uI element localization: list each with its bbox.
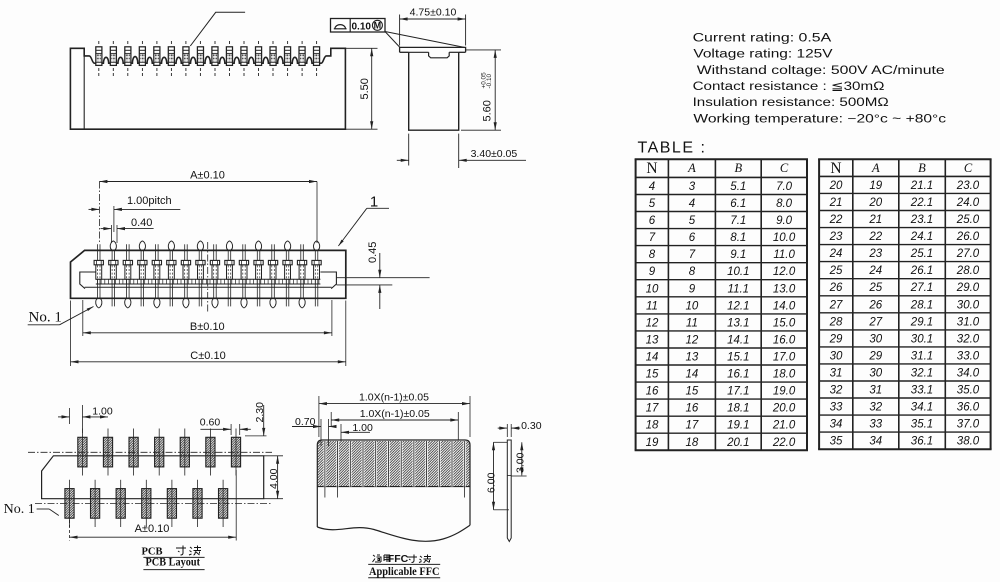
pcb pad bottom 6 (193, 480, 202, 527)
svg-text:24.1: 24.1 (910, 231, 933, 243)
svg-text:17: 17 (686, 420, 699, 432)
pcb pad bottom 1 (65, 480, 74, 527)
svg-text:31.1: 31.1 (911, 350, 933, 362)
front view pin 6 (168, 41, 174, 77)
svg-text:16.1: 16.1 (727, 369, 749, 381)
svg-text:7.0: 7.0 (776, 181, 793, 193)
svg-text:20: 20 (868, 197, 882, 209)
datum leader lines (385, 32, 464, 48)
label No.1 pcb (4, 502, 59, 517)
svg-text:N: N (646, 160, 657, 177)
svg-text:33: 33 (830, 402, 843, 414)
svg-text:22: 22 (829, 214, 843, 226)
svg-text:15: 15 (686, 386, 699, 398)
svg-text:34: 34 (830, 419, 843, 431)
svg-text:14.0: 14.0 (773, 300, 796, 312)
svg-text:16: 16 (686, 403, 699, 415)
svg-text:35: 35 (830, 436, 843, 448)
svg-text:26.0: 26.0 (956, 231, 980, 243)
svg-text:34.1: 34.1 (911, 402, 933, 414)
svg-text:14: 14 (686, 369, 699, 381)
pcb dimension A±0.10 (70, 470, 237, 541)
svg-text:11: 11 (646, 300, 658, 312)
svg-text:17: 17 (646, 403, 659, 415)
svg-text:0.40: 0.40 (131, 217, 152, 229)
svg-text:1.00pitch: 1.00pitch (127, 195, 172, 207)
svg-text:29.0: 29.0 (956, 282, 980, 294)
svg-text:FFC: FFC (388, 553, 409, 565)
svg-text:-0.10: -0.10 (486, 73, 493, 88)
top view contact 15 (297, 244, 306, 308)
svg-text:38.0: 38.0 (957, 436, 980, 448)
svg-text:28.1: 28.1 (910, 299, 933, 311)
svg-text:11.0: 11.0 (773, 249, 795, 261)
svg-text:1.00: 1.00 (92, 406, 113, 418)
svg-text:B±0.10: B±0.10 (190, 321, 225, 333)
svg-text:18: 18 (686, 437, 699, 449)
pcb pad top 6 (206, 429, 215, 476)
svg-text:13.1: 13.1 (727, 317, 749, 329)
svg-text:16.0: 16.0 (773, 334, 796, 346)
svg-text:5.50: 5.50 (359, 78, 371, 99)
svg-text:7: 7 (689, 249, 696, 261)
svg-text:19.0: 19.0 (773, 386, 796, 398)
svg-text:21: 21 (868, 214, 882, 226)
svg-text:21.0: 21.0 (772, 420, 796, 432)
front view pin 1 (96, 41, 102, 77)
svg-text:30: 30 (869, 368, 882, 380)
svg-text:C: C (964, 161, 973, 175)
pcb pad top 2 (103, 429, 112, 476)
top view contact 13 (268, 244, 277, 308)
svg-text:12: 12 (686, 334, 699, 346)
svg-text:13: 13 (686, 352, 699, 364)
svg-text:16: 16 (646, 386, 659, 398)
svg-text:11.1: 11.1 (728, 283, 750, 295)
svg-text:19.1: 19.1 (727, 420, 749, 432)
front view pin 10 (226, 41, 232, 77)
pcb dimension 2.30 (245, 402, 267, 436)
pcb pad top 7 (231, 429, 240, 476)
svg-text:23: 23 (829, 231, 843, 243)
svg-text:19: 19 (646, 437, 659, 449)
ffc dimension 0.30 (498, 420, 542, 437)
svg-text:32: 32 (830, 385, 843, 397)
svg-text:35.0: 35.0 (957, 385, 980, 397)
pcb outline (42, 456, 264, 499)
svg-text:28.0: 28.0 (956, 265, 980, 277)
top view contact 6 (167, 241, 176, 306)
svg-text:6: 6 (689, 232, 696, 244)
ffc conductor ticks (325, 487, 465, 498)
svg-text:21: 21 (829, 197, 843, 209)
side view body (409, 52, 459, 130)
front view body outline (70, 48, 345, 129)
svg-text:1.0X(n-1)±0.05: 1.0X(n-1)±0.05 (359, 392, 429, 404)
svg-text:26.1: 26.1 (910, 265, 933, 277)
svg-text:4.75±0.10: 4.75±0.10 (410, 7, 457, 19)
pcb pad top 5 (180, 429, 189, 476)
svg-text:Applicable FFC: Applicable FFC (369, 566, 440, 578)
svg-text:13.0: 13.0 (773, 283, 796, 295)
top view contact 2 (109, 241, 118, 306)
dimension A±0.10 top (99, 170, 317, 244)
svg-text:29: 29 (868, 350, 882, 362)
svg-text:27.1: 27.1 (910, 282, 933, 294)
pcb pad bottom 4 (142, 480, 151, 527)
ffc dimension 0.70 (292, 416, 337, 446)
svg-text:3: 3 (689, 181, 696, 193)
svg-text:21.1: 21.1 (910, 180, 933, 192)
svg-text:TABLE :: TABLE : (638, 140, 707, 157)
svg-text:14.1: 14.1 (727, 334, 749, 346)
svg-text:36.1: 36.1 (911, 436, 933, 448)
dimension 3.40±0.05 (397, 134, 526, 168)
svg-text:Voltage rating: 125V: Voltage rating: 125V (693, 49, 833, 61)
ffc dimension 3.00 (511, 442, 526, 476)
svg-text:17.1: 17.1 (727, 386, 749, 398)
svg-text:10.1: 10.1 (727, 266, 749, 278)
svg-text:30.1: 30.1 (911, 333, 933, 345)
top view slot right pocket (320, 272, 336, 289)
front view pin 13 (270, 41, 276, 77)
dimension 0.40 (101, 217, 154, 243)
svg-text:25: 25 (829, 265, 843, 277)
svg-text:4.00: 4.00 (268, 468, 280, 489)
top view contact 3 (123, 244, 132, 308)
top view body outline (71, 250, 346, 298)
svg-text:1.0X(n-1)±0.05: 1.0X(n-1)±0.05 (360, 408, 430, 420)
svg-text:5: 5 (689, 215, 696, 227)
top view slot left pocket (80, 272, 96, 289)
svg-text:A: A (871, 161, 880, 175)
svg-text:A: A (687, 161, 696, 175)
svg-text:30.0: 30.0 (957, 299, 980, 311)
ffc dimension overall 1.0X(n-1) (319, 392, 470, 437)
front view pin 7 (183, 41, 189, 77)
svg-text:20: 20 (829, 180, 843, 192)
svg-text:26: 26 (829, 282, 843, 294)
ffc dimension 6.00 (486, 442, 509, 510)
svg-text:M: M (374, 21, 382, 31)
svg-text:Current rating: 0.5A: Current rating: 0.5A (693, 33, 832, 45)
svg-text:7: 7 (649, 232, 656, 244)
svg-text:22.0: 22.0 (772, 437, 796, 449)
svg-text:9.0: 9.0 (776, 215, 793, 227)
svg-text:31: 31 (869, 385, 882, 397)
ffc dimension 1.00 (341, 422, 373, 441)
svg-text:27.0: 27.0 (956, 248, 980, 260)
svg-text:18.0: 18.0 (773, 369, 796, 381)
svg-text:C±0.10: C±0.10 (190, 350, 225, 362)
dimension B±0.10 (83, 300, 332, 336)
pcb pad bottom 2 (91, 480, 100, 527)
svg-text:32.0: 32.0 (957, 333, 980, 345)
label 1 top view (338, 194, 389, 247)
dimension C±0.10 (71, 301, 346, 367)
svg-text:24: 24 (868, 265, 882, 277)
dimension 4.75±0.10 (400, 7, 466, 46)
svg-text:13: 13 (646, 334, 659, 346)
front view pin 8 (197, 41, 203, 77)
top view contact 9 (210, 244, 219, 308)
svg-text:5: 5 (649, 198, 656, 210)
svg-text:Insulation resistance: 500MΩ: Insulation resistance: 500MΩ (693, 97, 890, 109)
pcb pad top 3 (129, 429, 138, 476)
caption Applicable FFC (368, 553, 440, 578)
svg-text:23.0: 23.0 (956, 180, 980, 192)
pcb dimension 4.00 (264, 456, 283, 499)
svg-text:12: 12 (646, 317, 659, 329)
pcb dimension 1.00 (58, 405, 113, 433)
svg-text:No. 1: No. 1 (29, 310, 62, 326)
svg-text:26: 26 (868, 299, 882, 311)
pcb dimension 0.60 (200, 416, 251, 435)
svg-text:8: 8 (689, 266, 696, 278)
front view pin 9 (212, 41, 218, 77)
svg-text:31: 31 (830, 368, 843, 380)
svg-text:25.1: 25.1 (910, 248, 933, 260)
svg-text:3.00: 3.00 (515, 452, 527, 473)
svg-text:20.0: 20.0 (772, 403, 796, 415)
svg-text:27: 27 (868, 316, 882, 328)
pcb pad top 4 (155, 429, 164, 476)
ffc side strip (507, 440, 511, 542)
svg-text:23.1: 23.1 (910, 214, 933, 226)
svg-text:7.1: 7.1 (730, 215, 746, 227)
svg-text:N: N (830, 160, 841, 177)
svg-text:27: 27 (829, 299, 843, 311)
top view contact 7 (181, 244, 190, 308)
svg-text:20.1: 20.1 (726, 437, 749, 449)
side view flange (400, 47, 466, 52)
front view pin 14 (285, 41, 291, 77)
svg-text:5.1: 5.1 (730, 181, 746, 193)
caption PCB Layout (142, 546, 205, 570)
top view contact 12 (254, 241, 263, 306)
svg-text:6.1: 6.1 (730, 198, 746, 210)
front view pin 11 (241, 41, 247, 77)
svg-text:34: 34 (869, 436, 882, 448)
svg-text:18.1: 18.1 (727, 403, 749, 415)
top view contact 4 (138, 241, 147, 306)
svg-text:19: 19 (869, 180, 882, 192)
pcb pad bottom 5 (167, 480, 176, 527)
svg-text:4: 4 (649, 181, 655, 193)
svg-text:Contact resistance : ≦30mΩ: Contact resistance : ≦30mΩ (693, 81, 885, 93)
top view contact 1 (94, 244, 103, 308)
svg-text:A±0.10: A±0.10 (190, 170, 225, 182)
svg-text:32.1: 32.1 (911, 368, 933, 380)
svg-text:33: 33 (869, 419, 882, 431)
svg-text:29.1: 29.1 (910, 316, 933, 328)
svg-text:8: 8 (649, 249, 656, 261)
svg-text:22: 22 (868, 231, 882, 243)
top view contact 11 (239, 244, 248, 308)
TABLE heading (638, 140, 707, 157)
svg-text:8.0: 8.0 (776, 198, 793, 210)
svg-text:9.1: 9.1 (730, 249, 746, 261)
top view contact 10 (225, 241, 234, 306)
specification text block (693, 33, 947, 126)
svg-text:8.1: 8.1 (730, 232, 746, 244)
front view pin 16 (314, 41, 320, 77)
svg-text:0.60: 0.60 (200, 416, 221, 428)
pcb pad bottom 3 (116, 480, 125, 527)
svg-text:Withstand coltage: 500V AC/mi: Withstand coltage: 500V AC/minute (697, 65, 945, 77)
ffc cable outline (317, 440, 470, 541)
svg-text:6: 6 (649, 215, 656, 227)
top view contact 8 (196, 241, 205, 306)
svg-text:C: C (780, 161, 789, 175)
svg-text:18: 18 (646, 420, 659, 432)
dimension table left (N 4-19) (635, 159, 808, 450)
top view slot rail (85, 279, 332, 287)
dimension 5.60 +0.05/-0.10 (461, 50, 501, 130)
front view pin 5 (154, 41, 160, 77)
dimension 1.00pitch (89, 195, 181, 232)
svg-text:B: B (734, 161, 742, 175)
dimension 5.50 (345, 48, 377, 129)
svg-text:5.60: 5.60 (482, 100, 494, 121)
front view pin 3 (125, 41, 131, 77)
svg-text:0.45: 0.45 (367, 242, 379, 263)
svg-text:10: 10 (686, 300, 699, 312)
svg-text:22.1: 22.1 (910, 197, 933, 209)
svg-text:15: 15 (646, 369, 659, 381)
dimension 0.45 (337, 242, 430, 309)
svg-text:30: 30 (830, 350, 843, 362)
svg-text:29: 29 (829, 333, 843, 345)
label No.1 top view (28, 307, 94, 326)
svg-text:25: 25 (868, 282, 882, 294)
svg-text:15.0: 15.0 (773, 317, 796, 329)
svg-text:PCB Layout: PCB Layout (146, 557, 201, 569)
svg-text:17.0: 17.0 (773, 352, 796, 364)
svg-text:A±0.10: A±0.10 (135, 523, 170, 535)
svg-text:0.30: 0.30 (521, 420, 542, 432)
pcb pad bottom 7 (219, 480, 228, 527)
front view pin 12 (256, 41, 262, 77)
svg-text:31.0: 31.0 (957, 316, 980, 328)
svg-text:36.0: 36.0 (957, 402, 980, 414)
svg-text:32: 32 (869, 402, 882, 414)
svg-text:6.00: 6.00 (486, 472, 498, 493)
pcb row centerlines (28, 452, 272, 503)
svg-text:No. 1: No. 1 (4, 502, 35, 517)
svg-text:4: 4 (689, 198, 695, 210)
svg-text:10: 10 (646, 283, 659, 295)
svg-text:3.40±0.05: 3.40±0.05 (471, 148, 518, 160)
svg-text:12.1: 12.1 (727, 300, 749, 312)
top view contact 14 (283, 241, 292, 306)
svg-text:9: 9 (649, 266, 656, 278)
svg-text:9: 9 (689, 283, 696, 295)
ffc conductor band (317, 441, 470, 487)
svg-text:11: 11 (686, 317, 698, 329)
svg-text:2.30: 2.30 (254, 402, 266, 423)
front view pin 15 (299, 41, 305, 77)
svg-text:23: 23 (868, 248, 882, 260)
svg-text:25.0: 25.0 (956, 214, 980, 226)
front view pin callout leader (190, 12, 245, 46)
svg-text:24: 24 (829, 248, 843, 260)
svg-text:24.0: 24.0 (956, 197, 980, 209)
svg-text:34.0: 34.0 (957, 368, 980, 380)
front view pin 4 (139, 41, 145, 77)
front view pin 2 (110, 41, 116, 77)
datum feature control frame (331, 19, 386, 33)
svg-text:14: 14 (646, 352, 659, 364)
top view centerline (207, 242, 209, 312)
svg-text:33.1: 33.1 (911, 385, 933, 397)
svg-text:0.10: 0.10 (352, 21, 372, 32)
svg-text:28: 28 (829, 316, 843, 328)
top view contact 5 (152, 244, 161, 308)
svg-text:15.1: 15.1 (727, 352, 749, 364)
ffc dimension inner 1.0X(n-1) (331, 408, 458, 440)
svg-text:12.0: 12.0 (773, 266, 796, 278)
dimension table right (N 20-35) (818, 159, 992, 449)
svg-text:10.0: 10.0 (773, 232, 796, 244)
top view contact 16 (312, 241, 321, 306)
svg-text:35.1: 35.1 (911, 419, 933, 431)
svg-text:B: B (918, 161, 926, 175)
svg-text:37.0: 37.0 (957, 419, 980, 431)
svg-text:30: 30 (869, 333, 882, 345)
pcb pad top 1 (78, 429, 87, 476)
svg-text:Working temperature: −20°c ~: Working temperature: −20°c ~ +80°c (693, 113, 946, 125)
svg-text:33.0: 33.0 (957, 350, 980, 362)
